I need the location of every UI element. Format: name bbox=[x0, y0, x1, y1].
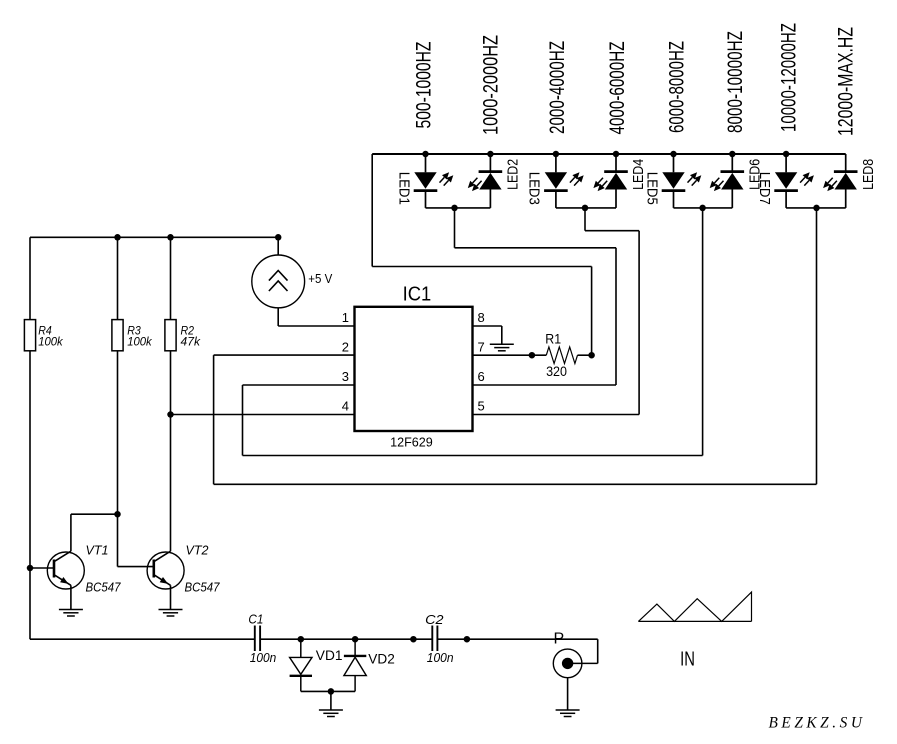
wire node to VT1 collector bbox=[71, 514, 118, 551]
svg-text:100k: 100k bbox=[38, 334, 63, 348]
junction R2-pin4 bbox=[167, 411, 174, 418]
transistor VT1 bbox=[47, 551, 84, 609]
wire R3 bottom lead bbox=[117, 351, 119, 514]
power source +5V circle bbox=[252, 255, 305, 308]
svg-text:C2: C2 bbox=[425, 613, 443, 627]
capacitor C1 bbox=[255, 626, 260, 652]
wire LED pair 1 cathode bar bbox=[426, 207, 491, 209]
junction rail-LED4 bbox=[613, 151, 620, 158]
junction rail-+5V bbox=[275, 234, 282, 241]
svg-text:VD1: VD1 bbox=[316, 648, 343, 663]
wire LED pair 2 cathode bar bbox=[556, 207, 616, 209]
svg-text:320: 320 bbox=[546, 363, 567, 379]
svg-text:BEZKZ.SU: BEZKZ.SU bbox=[769, 715, 866, 732]
LED LED2 bbox=[468, 154, 502, 208]
svg-text:47k: 47k bbox=[181, 334, 201, 348]
ground VT1 bbox=[59, 610, 83, 617]
wire R4 top lead bbox=[29, 237, 31, 319]
LED LED7 bbox=[774, 154, 814, 208]
LED LED5 bbox=[662, 154, 702, 208]
svg-text:LED2: LED2 bbox=[505, 159, 522, 190]
svg-text:+5 V: +5 V bbox=[308, 272, 333, 286]
svg-text:4: 4 bbox=[342, 399, 349, 414]
junction rail-LED1 bbox=[422, 151, 429, 158]
wire pin5 right stub bbox=[473, 414, 640, 416]
waveform symbol IN bbox=[638, 592, 751, 621]
svg-text:LED7: LED7 bbox=[756, 172, 773, 205]
svg-text:5: 5 bbox=[478, 399, 485, 414]
resistor R2 body bbox=[165, 320, 176, 351]
svg-text:2000-4000HZ: 2000-4000HZ bbox=[546, 41, 569, 134]
svg-text:BC547: BC547 bbox=[185, 581, 221, 595]
wire input line left segment bbox=[30, 638, 255, 640]
wire R2 bottom to pin4 node and VT2 collector bbox=[170, 351, 172, 551]
svg-text:8: 8 bbox=[478, 310, 485, 325]
node R1-rail net bbox=[588, 352, 595, 359]
diode VD1 bbox=[290, 639, 312, 691]
svg-text:100n: 100n bbox=[427, 651, 454, 665]
svg-text:P: P bbox=[554, 631, 565, 648]
wire pair3 tap to pin3 bbox=[243, 208, 703, 456]
junction C2 right bbox=[464, 636, 471, 643]
svg-text:VT2: VT2 bbox=[186, 544, 209, 558]
svg-text:3: 3 bbox=[342, 369, 349, 384]
ground pin8 bbox=[490, 344, 514, 351]
wire pin1 to +5V bbox=[278, 308, 354, 326]
wire VD ground stem bbox=[330, 691, 332, 710]
node pair 2 tap bbox=[582, 205, 589, 212]
resistor R1 zigzag bbox=[546, 347, 577, 364]
wire C1 to C2 bbox=[260, 638, 432, 640]
LED LED4 bbox=[593, 154, 627, 208]
wire pair4 tap to pin2 bbox=[214, 208, 817, 484]
svg-text:BC547: BC547 bbox=[86, 581, 122, 595]
svg-text:10000-12000HZ: 10000-12000HZ bbox=[778, 23, 801, 132]
node pair 3 tap bbox=[699, 205, 706, 212]
wire VT1 base lead bbox=[30, 567, 54, 569]
wire pin8 to ground bbox=[473, 326, 502, 344]
svg-text:2: 2 bbox=[342, 339, 349, 354]
junction rail-LED7 bbox=[783, 151, 790, 158]
svg-text:100n: 100n bbox=[250, 651, 277, 665]
LED LED8 bbox=[823, 154, 857, 208]
wire rail-left drop to R1 net bbox=[372, 154, 591, 355]
svg-text:7: 7 bbox=[478, 339, 485, 354]
svg-text:C1: C1 bbox=[248, 613, 263, 627]
LED LED1 bbox=[414, 154, 454, 208]
junction rail-LED5 bbox=[670, 151, 677, 158]
junction rail-R3 bbox=[114, 234, 121, 241]
junction rail-R2 bbox=[167, 234, 174, 241]
wire pair2 tap to pin5 bbox=[585, 208, 639, 415]
svg-text:LED5: LED5 bbox=[643, 172, 660, 205]
wire VD bottom bar bbox=[301, 690, 355, 692]
wire C2 to connector P bbox=[437, 639, 597, 663]
svg-text:500-1000HZ: 500-1000HZ bbox=[413, 41, 436, 128]
connector P jack bbox=[553, 649, 597, 678]
svg-text:6000-8000HZ: 6000-8000HZ bbox=[666, 41, 689, 133]
junction C2 left bbox=[410, 636, 417, 643]
junction rail-LED6 bbox=[729, 151, 736, 158]
svg-text:R1: R1 bbox=[545, 330, 561, 346]
wire pin6 right stub bbox=[473, 384, 617, 386]
wire +5V top lead bbox=[277, 237, 279, 255]
wire node to VT2 base bbox=[118, 514, 154, 566]
junction rail-LED3 bbox=[553, 151, 560, 158]
svg-text:LED8: LED8 bbox=[860, 159, 877, 190]
wire R2 top lead bbox=[170, 237, 172, 319]
ground VD pair bbox=[319, 710, 343, 717]
svg-text:8000-10000HZ: 8000-10000HZ bbox=[724, 31, 747, 133]
svg-text:6: 6 bbox=[478, 369, 485, 384]
transistor VT2 bbox=[147, 551, 184, 609]
resistor R4 body bbox=[24, 320, 35, 351]
wire R4 bottom / input node vertical bbox=[29, 351, 31, 639]
LED LED3 bbox=[544, 154, 584, 208]
node pin7-R1 bbox=[529, 352, 536, 359]
wire R3 top lead bbox=[117, 237, 119, 319]
wire bias rail bbox=[30, 236, 278, 238]
wire pin4 to R2/VT2 node bbox=[171, 414, 355, 416]
svg-text:LED3: LED3 bbox=[526, 172, 543, 205]
power source chevrons bbox=[269, 271, 288, 292]
wire pair1 tap to pin6 bbox=[455, 208, 617, 385]
svg-text:1: 1 bbox=[342, 310, 349, 325]
wire pin7 to R1 bbox=[473, 354, 547, 356]
ground VT2 bbox=[159, 610, 183, 617]
svg-text:4000-6000HZ: 4000-6000HZ bbox=[606, 41, 629, 134]
wire R1 right lead bbox=[578, 354, 592, 356]
wire P ground stem bbox=[567, 678, 569, 710]
junction R4-VT1 base bbox=[27, 565, 34, 572]
node pair 4 tap bbox=[813, 205, 820, 212]
junction rail-LED2 bbox=[487, 151, 494, 158]
wire LED pair 4 cathode bar bbox=[786, 207, 846, 209]
node pair 1 tap bbox=[451, 205, 458, 212]
wire LED pair 3 cathode bar bbox=[674, 207, 733, 209]
diode VD2 bbox=[344, 639, 366, 691]
svg-text:12F629: 12F629 bbox=[390, 435, 433, 450]
ground connector P bbox=[556, 710, 580, 717]
svg-text:VT1: VT1 bbox=[86, 544, 109, 558]
junction VD ground bbox=[328, 688, 335, 695]
junction VD2 bbox=[352, 636, 359, 643]
svg-text:VD2: VD2 bbox=[368, 652, 395, 667]
svg-text:12000-MAX.HZ: 12000-MAX.HZ bbox=[835, 27, 858, 136]
LED LED6 bbox=[710, 154, 744, 208]
junction VD1 bbox=[298, 636, 305, 643]
junction R3-VT1 collector node bbox=[114, 511, 121, 518]
svg-text:1000-2000HZ: 1000-2000HZ bbox=[479, 35, 502, 135]
svg-text:LED1: LED1 bbox=[395, 172, 412, 205]
svg-text:IN: IN bbox=[680, 649, 695, 671]
wire top anode rail bbox=[372, 153, 846, 155]
svg-text:100k: 100k bbox=[127, 334, 152, 348]
capacitor C2 bbox=[432, 626, 437, 652]
resistor R3 body bbox=[112, 320, 123, 351]
IC U1 12F629 body bbox=[355, 307, 473, 431]
svg-text:IC1: IC1 bbox=[403, 283, 432, 305]
